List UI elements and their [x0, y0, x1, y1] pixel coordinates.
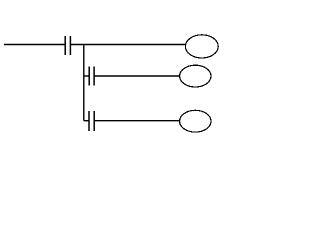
wire: C2 to terminal T2 (middle row) — [95, 75, 180, 77]
terminal T1 (ellipse) — [185, 35, 218, 58]
capacitor C2 — [89, 67, 94, 86]
wire: left input lead — [4, 44, 65, 46]
wire: C3 to terminal T3 (bottom row) — [95, 120, 180, 122]
wire: bus stub to C2 — [84, 75, 89, 77]
wire: bus stub to C3 — [84, 120, 89, 122]
capacitor C1 (series) — [65, 36, 70, 55]
capacitor C3 — [89, 111, 94, 131]
terminal T3 (ellipse) — [180, 110, 211, 132]
terminal T2 (ellipse) — [180, 65, 211, 87]
wire: vertical bus — [83, 45, 85, 121]
wire: C1 to terminal T1 (top row) — [71, 44, 185, 46]
